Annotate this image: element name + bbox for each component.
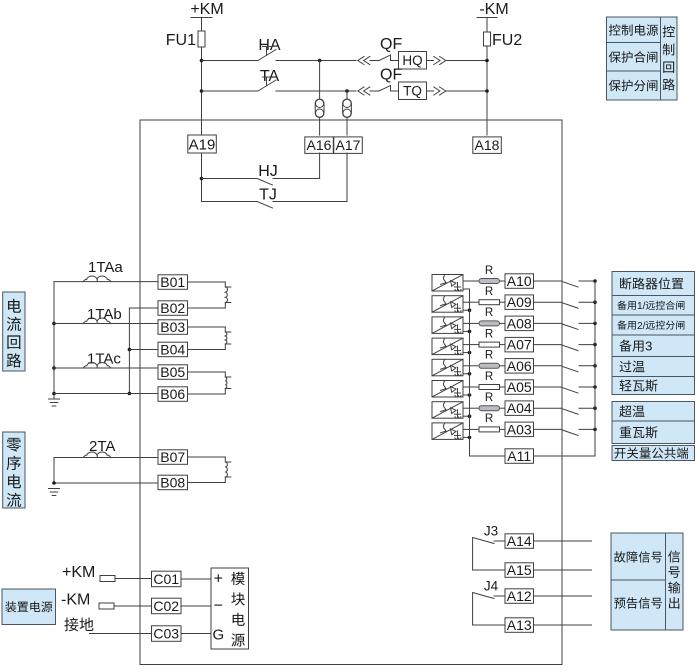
svg-text:B04: B04	[160, 342, 185, 358]
svg-text:R: R	[485, 350, 493, 362]
wire opto U1 to internal common	[463, 288, 470, 290]
svg-text:B03: B03	[160, 319, 185, 335]
wire 接地 to C03	[90, 633, 152, 635]
optocoupler U3 (备用2/远控分闸 input)	[432, 317, 463, 334]
junction -KM/HQ row	[485, 59, 489, 63]
label box 控制回路 (control circuit)	[661, 17, 678, 100]
wire A03 to contact	[534, 428, 563, 430]
svg-text:B02: B02	[160, 300, 185, 316]
wire B04 to winding	[188, 349, 226, 351]
wire TQ to -KM bus	[446, 90, 487, 92]
coil HQ (closing coil)	[399, 52, 427, 70]
contact 轻瓦斯 (external)	[562, 388, 578, 394]
contact 重瓦斯 (external)	[562, 430, 578, 436]
wire FU1 down to A19	[201, 47, 203, 135]
wire C02 to module -	[181, 605, 211, 607]
terminal B08	[158, 475, 188, 490]
junction internal common U8	[468, 436, 472, 440]
wire contact to common bus	[579, 407, 595, 409]
svg-text:TQ: TQ	[403, 84, 422, 99]
junction HJ row	[200, 177, 204, 181]
label box 备用2/远控分闸	[612, 315, 695, 335]
terminal B03	[158, 320, 188, 335]
svg-text:TJ: TJ	[259, 187, 277, 204]
junction TA row / A17 branch	[345, 89, 349, 93]
module power supply box (模块电源)	[211, 568, 249, 649]
svg-text:B05: B05	[160, 364, 185, 380]
junction bus/1TAc	[52, 366, 56, 370]
wire B07 to winding	[188, 456, 226, 458]
junction bus/1TAb	[52, 322, 56, 326]
coil TQ (tripping coil)	[399, 82, 427, 100]
optocoupler U8 (重瓦斯 input)	[432, 423, 463, 440]
wire B06 to winding	[188, 393, 226, 395]
junction bus row A08	[593, 322, 597, 326]
label box 轻瓦斯	[612, 377, 695, 395]
svg-text:R: R	[485, 328, 493, 340]
wire A04 to contact	[534, 407, 563, 409]
svg-text:HQ: HQ	[402, 53, 422, 68]
connector X2 (TA row to A17)	[346, 91, 348, 99]
svg-text:-KM: -KM	[61, 592, 90, 609]
wire contact to common bus	[579, 344, 595, 346]
wire contact to common bus	[579, 280, 595, 282]
svg-text:A11: A11	[507, 448, 531, 464]
svg-text:B01: B01	[160, 274, 185, 290]
wire A05 to contact	[534, 386, 563, 388]
wire A07 to contact	[534, 344, 563, 346]
wire B06 return	[54, 393, 158, 395]
wire opto U8 to internal common	[463, 436, 470, 438]
svg-text:1TAc: 1TAc	[87, 351, 121, 368]
svg-text:R: R	[485, 307, 493, 319]
winding Ia (B01-B02)	[225, 282, 227, 308]
optocoupler U4 (备用3 input)	[432, 338, 463, 355]
label box 预告信号 (alarm signal)	[611, 580, 666, 630]
wire contact to common bus	[579, 428, 595, 430]
wire A09 to contact	[534, 301, 563, 303]
svg-text:1/: 1/	[637, 301, 646, 312]
svg-text:-KM: -KM	[479, 1, 508, 18]
svg-text:R: R	[485, 392, 493, 404]
ground (CT star point)	[49, 398, 60, 400]
winding Ic (B05-B06)	[225, 372, 227, 394]
label box 超温	[612, 402, 695, 422]
svg-text:QF: QF	[380, 67, 402, 84]
optocoupler U1 (断路器位置 input)	[432, 275, 463, 292]
connector X1 (HA row to A16)	[319, 61, 321, 100]
junction bus row A10	[593, 279, 597, 283]
terminal A06	[505, 359, 534, 374]
contact 备用2/远控分闸 (external)	[562, 324, 578, 330]
terminal A12	[505, 589, 534, 604]
svg-text:+: +	[214, 571, 223, 588]
CT phase bus (left)	[53, 282, 55, 399]
wire A14 out	[534, 540, 592, 542]
wire A13 out	[534, 624, 592, 626]
svg-text:HJ: HJ	[258, 163, 278, 180]
junction bus row A07	[593, 343, 597, 347]
external common bus	[594, 281, 596, 456]
junction return/B04	[128, 348, 132, 352]
svg-text:C02: C02	[153, 598, 179, 614]
wire A06 to contact	[534, 365, 563, 367]
wire B02 return	[129, 307, 158, 309]
svg-text:2/: 2/	[637, 321, 646, 332]
contact 断路器位置 (external)	[562, 282, 578, 288]
label box 故障信号 (fault signal)	[611, 533, 666, 580]
wire B04 return	[129, 349, 158, 351]
junction bus row A09	[593, 300, 597, 304]
svg-text:A07: A07	[507, 337, 532, 353]
svg-text:A19: A19	[189, 136, 216, 153]
terminal A03	[505, 422, 534, 437]
terminal C01	[152, 571, 182, 587]
connector plug HQ out (right chevrons)	[427, 60, 434, 62]
junction internal common U7	[468, 414, 472, 418]
junction internal common U6	[468, 393, 472, 397]
terminal A18	[473, 137, 502, 154]
wire HJ to A16	[319, 153, 321, 179]
svg-text:A12: A12	[507, 588, 532, 604]
svg-text:A14: A14	[507, 533, 532, 549]
CT return line	[128, 308, 130, 394]
svg-text:FU2: FU2	[492, 32, 522, 49]
terminal B04	[158, 342, 188, 357]
internal common bus to A11	[469, 289, 471, 456]
wire +KM to FU1	[201, 18, 203, 32]
wire A15 out	[534, 569, 592, 571]
svg-text:HA: HA	[258, 37, 281, 54]
terminal A17	[334, 137, 363, 154]
terminal C02	[152, 598, 182, 614]
terminal A05	[505, 380, 534, 395]
wire 2TA down	[53, 458, 55, 484]
svg-text:R: R	[485, 413, 493, 425]
svg-text:R: R	[485, 265, 493, 277]
label box 开关量公共端	[612, 446, 695, 461]
wire B08 return	[54, 482, 158, 484]
svg-text:A04: A04	[507, 400, 532, 416]
svg-text:1TAa: 1TAa	[88, 259, 123, 276]
svg-text:A13: A13	[507, 617, 532, 633]
svg-text:3: 3	[645, 339, 652, 354]
junction +KM/HA row	[200, 59, 204, 63]
svg-text:B08: B08	[160, 475, 185, 491]
optocoupler U6 (轻瓦斯 input)	[432, 381, 463, 398]
wire C03 to module G	[181, 633, 211, 635]
label box 保护合闸 (protective closing)	[607, 43, 661, 72]
wire +KM to C01	[115, 578, 152, 580]
terminal B06	[158, 387, 188, 402]
junction +KM/TA row	[200, 89, 204, 93]
svg-text:+KM: +KM	[190, 1, 223, 18]
label box 装置电源 (device power)	[2, 589, 56, 625]
wire opto U6 to internal common	[463, 394, 470, 396]
svg-text:R: R	[485, 371, 493, 383]
junction bus row A05	[593, 385, 597, 389]
wire contact to common bus	[579, 301, 595, 303]
junction internal common U3	[468, 330, 472, 334]
winding Ib (B03-B04)	[225, 327, 227, 350]
wire FU2 down to A18	[486, 46, 488, 135]
optocoupler U2 (备用1/远控合闸 input)	[432, 296, 463, 313]
wire -KM to FU2	[486, 18, 488, 33]
svg-text:A09: A09	[507, 294, 532, 310]
wire C01 to module +	[181, 578, 211, 580]
svg-text:B07: B07	[160, 449, 185, 465]
terminal B01	[158, 275, 188, 290]
wire B01 to winding	[188, 281, 226, 283]
terminal C03	[152, 626, 182, 642]
terminal A14	[505, 534, 534, 549]
wire HA to node	[276, 60, 356, 62]
svg-text:A16: A16	[307, 137, 332, 153]
connector plug TA row (left chevrons)	[358, 87, 370, 95]
junction internal common U4	[468, 351, 472, 355]
contact 超温 (external)	[562, 409, 578, 415]
fuse FU2	[484, 32, 491, 46]
junction bus row A06	[593, 364, 597, 368]
terminal A11	[505, 449, 534, 464]
label box 过温	[612, 357, 695, 377]
terminal A08	[505, 316, 534, 331]
wire B02 to winding	[188, 307, 226, 309]
label box 备用1/远控合闸	[612, 296, 695, 316]
wire B05 to winding	[188, 371, 226, 373]
winding I0 (B07-B08)	[225, 457, 227, 483]
wire opto U4 to internal common	[463, 352, 470, 354]
terminal A16	[305, 137, 334, 154]
wire -KM to C02	[114, 605, 152, 607]
label box 信号输出 (signal output)	[666, 533, 684, 630]
wire A08 to contact	[534, 322, 563, 324]
label box 断路器位置	[612, 272, 695, 296]
terminal A09	[505, 295, 534, 310]
junction return/B06 row	[128, 392, 132, 396]
wire opto U2 to internal common	[463, 309, 470, 311]
junction bus row A04	[593, 406, 597, 410]
contact 备用1/远控合闸 (external)	[562, 303, 578, 309]
svg-text:A05: A05	[507, 379, 532, 395]
svg-text:A17: A17	[336, 137, 361, 153]
svg-text:A10: A10	[507, 273, 532, 289]
wire TA to node	[276, 90, 356, 92]
svg-text:FU1: FU1	[166, 32, 196, 49]
svg-text:A18: A18	[475, 137, 500, 153]
junction -KM/TQ row	[485, 89, 489, 93]
junction bus/return	[52, 392, 56, 396]
junction 2TA ground	[52, 481, 56, 485]
junction bus row A03	[593, 428, 597, 432]
junction HA row / A16 branch	[318, 59, 322, 63]
svg-text:C03: C03	[153, 626, 179, 642]
svg-text:A08: A08	[507, 315, 532, 331]
svg-text:B06: B06	[160, 386, 185, 402]
label box 备用3	[612, 335, 695, 357]
label box 保护分闸 (protective tripping)	[607, 71, 661, 100]
terminal A13	[505, 618, 534, 633]
svg-text:C01: C01	[153, 571, 179, 587]
optocoupler U7 (超温 input)	[432, 402, 463, 419]
wire contact to common bus	[579, 322, 595, 324]
ground (2TA)	[49, 488, 60, 490]
fuse FU1	[198, 31, 205, 47]
wire opto U7 to internal common	[463, 415, 470, 417]
label box 电流回路 (current circuit)	[3, 292, 25, 371]
svg-text:J3: J3	[484, 524, 498, 539]
terminal B05	[158, 365, 188, 380]
svg-text:QF: QF	[380, 36, 402, 53]
svg-text:A03: A03	[507, 421, 532, 437]
wire contact to common bus	[579, 365, 595, 367]
connector plug HA row (left chevrons)	[358, 57, 370, 65]
svg-text:1TAb: 1TAb	[87, 306, 122, 323]
svg-text:R: R	[485, 286, 493, 298]
label box 零序电流 (zero-sequence current)	[3, 432, 25, 508]
wire B03 to winding	[188, 326, 226, 328]
wire opto U5 to internal common	[463, 373, 470, 375]
wire A12 out	[534, 595, 592, 597]
optocoupler U5 (过温 input)	[432, 359, 463, 376]
label box 控制电源 (control power)	[607, 17, 661, 43]
terminal A19	[188, 135, 217, 153]
protection device enclosure box	[140, 120, 562, 665]
svg-text:A15: A15	[507, 562, 532, 578]
wire A19 down	[201, 153, 203, 202]
terminal A10	[505, 274, 534, 289]
wire B08 to winding	[188, 482, 226, 484]
svg-text:−: −	[214, 597, 223, 614]
terminal A04	[505, 401, 534, 416]
wire TJ to A17	[346, 153, 348, 202]
terminal A15	[505, 563, 534, 578]
wire contact to common bus	[579, 386, 595, 388]
svg-text:+KM: +KM	[62, 564, 95, 581]
terminal B07	[158, 450, 188, 465]
terminal B02	[158, 301, 188, 316]
wire HQ to -KM bus	[446, 60, 487, 62]
contact 过温 (external)	[562, 366, 578, 372]
wire opto U3 to internal common	[463, 330, 470, 332]
junction internal common U2	[468, 308, 472, 312]
contact 备用3 (external)	[562, 345, 578, 351]
svg-text:A06: A06	[507, 358, 532, 374]
label box 重瓦斯	[612, 421, 695, 444]
terminal A07	[505, 337, 534, 352]
wire A10 to contact	[534, 280, 563, 282]
junction internal common U5	[468, 372, 472, 376]
connector plug TQ out (right chevrons)	[427, 90, 434, 92]
svg-text:J4: J4	[484, 579, 499, 594]
wire A11 to external bus	[534, 455, 596, 457]
svg-text:G: G	[212, 626, 224, 643]
node 接地 (earth)	[64, 618, 78, 632]
